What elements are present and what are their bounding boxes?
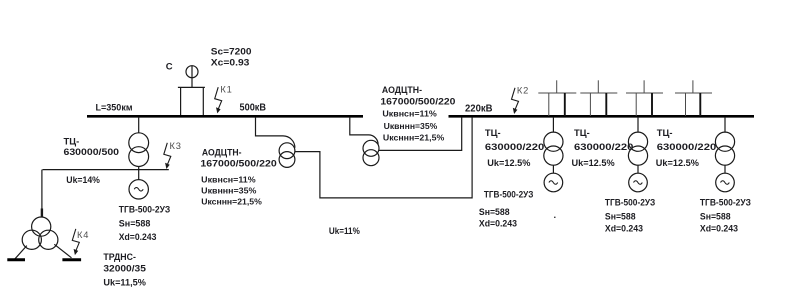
feeder group 3 (626, 80, 663, 116)
wire thick stub (41, 209, 43, 218)
svg-text:Sн=588: Sн=588 (605, 211, 636, 222)
svg-text:32000/35: 32000/35 (103, 263, 145, 274)
svg-text:630000/220: 630000/220 (657, 141, 716, 152)
svg-text:Sн=588: Sн=588 (700, 211, 731, 222)
500kV bus (87, 115, 363, 118)
feeder group 1 (538, 80, 576, 116)
svg-text:500кВ: 500кВ (240, 102, 267, 113)
generator G4 (716, 173, 735, 192)
wire left branch drop (138, 117, 140, 133)
svg-text:Uk=12.5%: Uk=12.5% (656, 157, 700, 168)
svg-text:ТЦ-: ТЦ- (485, 127, 501, 138)
svg-text:К2: К2 (517, 86, 529, 96)
svg-text:Uk=12.5%: Uk=12.5% (572, 157, 616, 168)
transformer T4 TC-630000/220 (715, 132, 734, 151)
svg-text:Xc=0.93: Xc=0.93 (211, 57, 250, 67)
svg-text:Uквнсн=11%: Uквнсн=11% (382, 109, 437, 119)
svg-text:ТГВ-500-2УЗ: ТГВ-500-2УЗ (700, 197, 751, 208)
fault K3 bolt (164, 143, 171, 169)
svg-text:Uk=11,5%: Uk=11,5% (103, 276, 146, 287)
wire (637, 165, 639, 173)
wire AT2 to 220 bus (379, 117, 462, 150)
svg-text:ТЦ-: ТЦ- (657, 127, 673, 138)
system transformer box (178, 87, 205, 115)
autotransformer AT1 AODCTN (279, 143, 295, 159)
wire source stem (191, 66, 193, 88)
svg-text:Xd=0.243: Xd=0.243 (119, 231, 157, 242)
fault K1 bolt (215, 87, 222, 113)
svg-text:630000/220: 630000/220 (485, 141, 544, 152)
wire (724, 165, 726, 173)
svg-text:ТГВ-500-2УЗ: ТГВ-500-2УЗ (119, 204, 171, 215)
svg-text:630000/500: 630000/500 (64, 146, 120, 157)
svg-text:АОДЦТН-: АОДЦТН- (202, 147, 242, 158)
transformer T2 TC-630000/220 (544, 132, 563, 151)
generator G1 TGV-500-2U3 (129, 180, 148, 199)
svg-text:167000/500/220: 167000/500/220 (200, 158, 276, 169)
svg-text:Sн=588: Sн=588 (119, 218, 151, 229)
220 branch 3 wire (724, 117, 726, 132)
svg-text:Uквнсн=11%: Uквнсн=11% (201, 175, 256, 185)
wire 500bus to AT1 (256, 117, 295, 148)
svg-text:К1: К1 (220, 84, 232, 94)
feeder group 4 (675, 80, 712, 116)
transformer TRDNS-32000/35 three-winding (32, 217, 51, 236)
fault K2 bolt (512, 88, 519, 114)
fault K4 bolt (72, 229, 79, 255)
transformer T3 TC-630000/220 (628, 132, 647, 151)
wire to TRDNS (41, 170, 43, 218)
svg-text:Uксннн=21,5%: Uксннн=21,5% (201, 197, 262, 207)
wire ground lead left (15, 246, 27, 259)
generator G2 (544, 173, 563, 192)
svg-text:АОДЦТН-: АОДЦТН- (382, 84, 422, 95)
svg-text:Uксннн=21,5%: Uксннн=21,5% (383, 132, 445, 142)
svg-text:С: С (166, 62, 173, 73)
wire 500bus to AT2 (350, 117, 378, 145)
svg-text:Sн=588: Sн=588 (479, 206, 510, 217)
svg-text:Uквннн=35%: Uквннн=35% (201, 186, 256, 196)
svg-text:К4: К4 (77, 230, 89, 240)
svg-text:ТГВ-500-2УЗ: ТГВ-500-2УЗ (484, 189, 534, 200)
transformer T1 TC-630000/500 (129, 133, 149, 153)
svg-text:Uk=11%: Uk=11% (329, 225, 360, 236)
system source C circle (186, 66, 198, 78)
220kV bus (449, 115, 755, 118)
svg-text:Xd=0.243: Xd=0.243 (479, 218, 517, 229)
svg-text:ТЦ-: ТЦ- (64, 135, 80, 146)
svg-text:Uk=12.5%: Uk=12.5% (487, 157, 531, 168)
ground left (7, 258, 25, 261)
svg-text:220кВ: 220кВ (465, 103, 493, 114)
ground right (62, 258, 81, 261)
svg-text:ТГВ-500-2УЗ: ТГВ-500-2УЗ (605, 197, 656, 208)
feeder group 2 (580, 80, 617, 116)
220 branch 1 wire (552, 117, 554, 132)
svg-text:ТРДНС-: ТРДНС- (103, 251, 135, 262)
svg-text:167000/500/220: 167000/500/220 (380, 95, 455, 106)
svg-text:Uквннн=35%: Uквннн=35% (384, 121, 438, 131)
wire ground lead right (54, 244, 71, 257)
svg-text:L=350км: L=350км (96, 102, 133, 113)
svg-text:ТЦ-: ТЦ- (574, 127, 590, 138)
wire (552, 165, 554, 173)
wire AT1 to 220 bus (295, 117, 472, 198)
svg-text:630000/220: 630000/220 (574, 141, 633, 152)
wire K3 stub (43, 169, 169, 171)
generator G3 (629, 173, 648, 192)
autotransformer AT2 AODCTN (363, 140, 379, 156)
svg-text:Xd=0.243: Xd=0.243 (605, 222, 643, 233)
220 branch 2 wire (637, 117, 639, 132)
svg-text:.: . (554, 209, 557, 220)
wire transformer to generator (138, 167, 140, 180)
svg-text:Uk=14%: Uk=14% (66, 174, 100, 185)
svg-text:К3: К3 (170, 141, 182, 151)
svg-text:Sc=7200: Sc=7200 (211, 47, 252, 57)
svg-text:Xd=0.243: Xd=0.243 (700, 222, 738, 233)
